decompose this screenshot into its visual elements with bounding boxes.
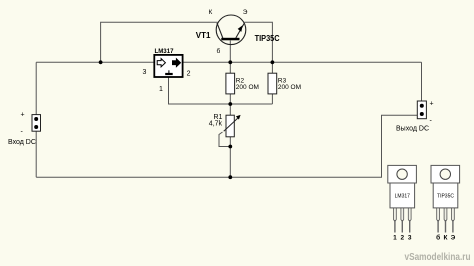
svg-text:3: 3 (408, 235, 412, 242)
wire adj rail (169, 77, 273, 104)
wire R1 bottom (229, 137, 231, 177)
svg-text:200 OM: 200 OM (236, 84, 259, 91)
wire input rail (36, 61, 154, 63)
wire emitter top to drop (244, 22, 272, 62)
node junction adj (228, 102, 232, 106)
svg-text:2: 2 (187, 71, 191, 78)
connector J1 input (8, 112, 41, 147)
wire bottom rail (36, 115, 417, 177)
wire R3 bottom (271, 94, 273, 104)
transistor VT1 TIP35C (196, 9, 280, 55)
svg-text:Э: Э (451, 235, 456, 242)
svg-text:Э: Э (243, 9, 248, 16)
svg-text:+: + (430, 101, 434, 108)
svg-text:б: б (436, 234, 440, 242)
svg-text:б: б (217, 47, 221, 55)
pin 1 (394, 208, 397, 222)
package TIP35C TO-220 (431, 165, 460, 241)
wire R2 bottom (229, 94, 231, 104)
svg-text:LM317: LM317 (395, 194, 411, 200)
node junction wiper (228, 145, 232, 149)
svg-text:Выход DC: Выход DC (396, 126, 429, 133)
svg-text:LM317: LM317 (155, 48, 174, 55)
svg-text:1: 1 (393, 235, 397, 242)
svg-text:TIP35C: TIP35C (437, 194, 454, 200)
pin E (452, 208, 455, 222)
wire input connector vertical bottom (35, 131, 37, 177)
wire R2 leads (229, 62, 231, 73)
pin 2 (401, 208, 404, 222)
resistor R3 (268, 73, 301, 94)
collector line (217, 23, 223, 38)
svg-text:1: 1 (159, 86, 163, 93)
svg-text:+: + (21, 112, 25, 119)
package LM317 TO-220 (388, 165, 417, 241)
resistor R2 (226, 73, 259, 94)
pin 3 (408, 208, 411, 222)
node junction base (228, 60, 232, 64)
node junction bottom (228, 175, 232, 179)
wire output connector top (421, 62, 423, 101)
svg-text:4,7k: 4,7k (209, 121, 223, 128)
wire base drop (229, 41, 231, 63)
emitter arrow (238, 25, 243, 32)
wire R3 top (271, 62, 273, 73)
node junction C-rail (99, 60, 103, 64)
wire input connector vertical top (35, 62, 37, 114)
svg-text:К: К (209, 9, 213, 16)
wire R1 top (229, 104, 231, 115)
pin K (444, 208, 447, 222)
node junction emitter (271, 60, 275, 64)
base bar (221, 38, 239, 41)
svg-text:200 OM: 200 OM (278, 84, 301, 91)
svg-text:3: 3 (143, 69, 147, 76)
potentiometer R1 (209, 114, 241, 137)
svg-text:Вход DC: Вход DC (8, 139, 36, 146)
svg-text:VT1: VT1 (196, 31, 211, 40)
connector J2 output (396, 101, 434, 133)
svg-text:TIP35C: TIP35C (255, 34, 280, 43)
svg-text:vSamodelkina.ru: vSamodelkina.ru (405, 252, 471, 263)
emitter line (236, 23, 245, 38)
wire wiper loop (219, 132, 230, 147)
svg-text:2: 2 (400, 235, 404, 242)
wire output rail (183, 61, 422, 63)
regulator U1 LM317 (143, 48, 191, 93)
svg-text:К: К (444, 235, 448, 242)
wire collector top horizontal (101, 22, 218, 62)
pin B (437, 208, 440, 222)
